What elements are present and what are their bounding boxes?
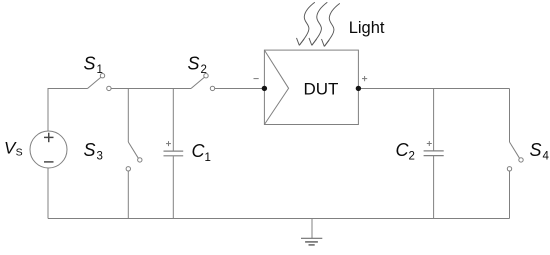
svg-text:2: 2 [409, 150, 415, 162]
svg-text:2: 2 [201, 64, 207, 76]
node plus (DUT right terminal) [356, 86, 361, 91]
light ray arrow 2 [309, 2, 327, 45]
node minus (DUT left terminal) [262, 86, 267, 91]
capacitor C1 [164, 151, 184, 156]
C2 polarity plus [427, 141, 432, 146]
svg-text:S: S [530, 140, 542, 160]
wire C2 branch top [433, 89, 435, 151]
svg-text:3: 3 [97, 150, 103, 162]
wire C1 branch top [172, 89, 174, 151]
switch S2 [191, 74, 215, 91]
wire C2 branch bottom [433, 156, 435, 219]
svg-text:S: S [84, 140, 96, 160]
svg-text:1: 1 [205, 152, 211, 164]
light ray arrow 1 [297, 2, 315, 45]
ground [301, 238, 322, 245]
svg-text:1: 1 [97, 64, 103, 76]
wire C1 branch bottom [172, 156, 174, 218]
capacitor C2 [424, 151, 444, 156]
wire DUT plus node to right rail [358, 88, 509, 90]
wire right rail below S4 [509, 171, 511, 219]
svg-text:S: S [84, 53, 96, 73]
svg-text:C: C [192, 141, 206, 161]
wire S3 branch bottom [127, 171, 129, 219]
wire S2 contact to DUT minus node [215, 88, 264, 90]
wire top-left (VS top corner to S1) [48, 89, 88, 132]
switch S3 [126, 142, 142, 171]
wire bottom rail [48, 218, 510, 220]
wire ground stub [311, 219, 313, 239]
svg-text:Light: Light [349, 19, 385, 37]
plus sign at DUT right [362, 76, 367, 81]
wire S1 contact to S2 lever [111, 88, 191, 90]
wire S3 branch top [127, 89, 129, 143]
svg-text:S: S [16, 147, 23, 159]
svg-text:4: 4 [543, 150, 550, 162]
voltage source VS [30, 131, 67, 168]
svg-text:S: S [188, 53, 200, 73]
wire left rail below VS [47, 168, 49, 219]
svg-text:DUT: DUT [304, 79, 339, 98]
switch S4 [507, 142, 523, 171]
DUT block U1 [264, 50, 358, 124]
light ray arrow 3 [322, 3, 340, 46]
wire right rail above S4 [509, 89, 511, 143]
switch S1 [88, 74, 112, 91]
C1 polarity plus [166, 141, 171, 146]
minus sign at DUT left [254, 78, 259, 80]
svg-text:C: C [396, 140, 410, 160]
